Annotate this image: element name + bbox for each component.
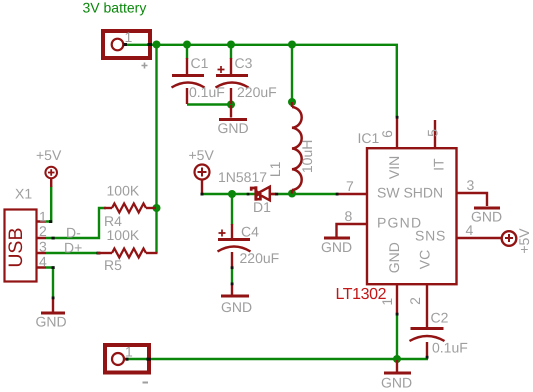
svg-text:4: 4	[466, 222, 474, 238]
svg-text:C1: C1	[191, 55, 209, 71]
svg-text:4: 4	[39, 254, 47, 270]
svg-text:10uH: 10uH	[299, 140, 315, 173]
svg-text:VC: VC	[417, 250, 433, 269]
svg-text:3: 3	[467, 177, 475, 193]
svg-text:C3: C3	[235, 55, 253, 71]
svg-text:GND: GND	[381, 375, 412, 391]
svg-text:R5: R5	[104, 257, 122, 273]
svg-text:GND: GND	[471, 209, 502, 225]
svg-text:D1: D1	[253, 199, 271, 215]
svg-text:GND: GND	[218, 120, 249, 136]
svg-text:2: 2	[39, 223, 47, 239]
svg-text:SW SHDN: SW SHDN	[377, 185, 443, 201]
svg-text:VIN: VIN	[386, 156, 402, 179]
svg-text:D+: D+	[64, 239, 82, 255]
svg-text:1: 1	[125, 344, 133, 360]
svg-text:C2: C2	[431, 310, 449, 326]
svg-text:L1: L1	[267, 161, 283, 177]
svg-text:D-: D-	[66, 225, 81, 241]
svg-text:IT: IT	[431, 158, 447, 171]
svg-text:SNS: SNS	[415, 228, 446, 244]
svg-text:1: 1	[125, 29, 133, 45]
svg-text:GND: GND	[36, 314, 67, 330]
svg-text:220uF: 220uF	[237, 84, 277, 100]
svg-text:IC1: IC1	[358, 130, 380, 146]
svg-text:X1: X1	[15, 186, 32, 202]
svg-text:+5V: +5V	[36, 147, 62, 163]
svg-text:USB: USB	[5, 228, 27, 268]
svg-text:7: 7	[346, 178, 354, 194]
svg-text:100K: 100K	[107, 227, 140, 243]
svg-text:220uF: 220uF	[240, 250, 280, 266]
svg-text:C4: C4	[241, 224, 259, 240]
svg-text:+5V: +5V	[189, 147, 215, 163]
svg-text:6: 6	[379, 130, 395, 138]
svg-text:+5V: +5V	[516, 228, 532, 254]
svg-text:2: 2	[407, 297, 423, 305]
svg-text:1N5817: 1N5817	[218, 169, 267, 185]
svg-text:GND: GND	[386, 242, 402, 273]
svg-text:1: 1	[379, 298, 395, 306]
svg-text:5: 5	[424, 129, 440, 137]
svg-text:3: 3	[39, 239, 47, 255]
svg-text:100K: 100K	[107, 183, 140, 199]
svg-text:0.1uF: 0.1uF	[432, 340, 468, 356]
svg-text:8: 8	[345, 208, 353, 224]
svg-text:GND: GND	[321, 239, 352, 255]
svg-text:3V battery: 3V battery	[83, 0, 147, 16]
svg-text:GND: GND	[221, 299, 252, 315]
